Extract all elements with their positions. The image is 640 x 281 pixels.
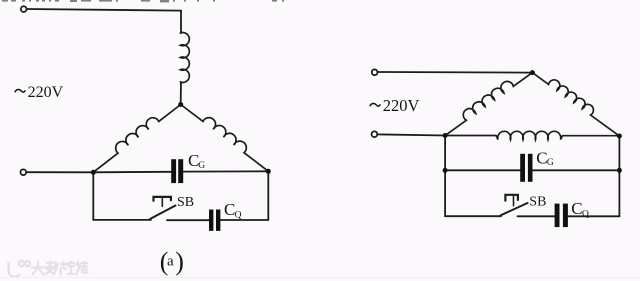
switch SB actuator stem [513, 195, 515, 206]
svg-text:Q: Q [582, 210, 589, 220]
winding right diagonal (apex to right node) [181, 98, 274, 171]
wire down to coil [180, 11, 182, 33]
bottom wire right segment [568, 215, 619, 217]
coil L-main (vertical winding) [180, 33, 189, 83]
wire coil to apex [180, 82, 182, 103]
junction CG left dot [443, 168, 448, 173]
terminal L1 (top left) [21, 6, 27, 12]
wire terminal to left node [378, 134, 445, 135]
right vertical wire [618, 136, 620, 216]
winding right diagonal (apex to right node) [532, 66, 624, 136]
svg-text:): ) [175, 247, 184, 276]
bottom wire left segment to switch hinge [93, 219, 151, 221]
terminal R1 (top left) [372, 69, 378, 75]
winding left diagonal (apex to left node) [88, 98, 180, 172]
switch SB actuator stem [161, 197, 163, 206]
wire CG right plate to right node [183, 170, 268, 172]
label ~220V right : tilde [370, 103, 381, 106]
wire left node to CG left plate [93, 171, 171, 174]
left vertical wire [92, 172, 94, 220]
terminal R2 (lower left) [372, 131, 378, 137]
left vertical wire [444, 136, 446, 217]
switch SB actuator bar [505, 195, 518, 201]
bottom wire right segment [220, 219, 268, 221]
switch SB actuator bar [154, 197, 171, 201]
junction apex dot [178, 102, 183, 107]
bottom wire middle segment [167, 219, 209, 221]
svg-text:a: a [167, 254, 174, 270]
switch SB blade [150, 206, 175, 219]
capacitor CQ plates [209, 210, 213, 231]
main winding horizontal coil [445, 131, 619, 139]
svg-text:C: C [536, 148, 547, 167]
CG row left wire [445, 169, 520, 171]
node right dot [266, 169, 271, 174]
junction apex dot right [530, 70, 535, 75]
watermark text 大数跨境 [32, 262, 88, 275]
wire terminal to left node [27, 171, 94, 173]
switch SB blade [501, 203, 528, 215]
svg-text:SB: SB [177, 195, 194, 210]
wire top horizontal [27, 9, 181, 11]
svg-text:G: G [547, 158, 554, 168]
right vertical wire [267, 171, 269, 220]
terminal L2 (lower left) [20, 169, 26, 175]
label ~220V left : tilde [15, 89, 25, 92]
svg-text:Q: Q [235, 210, 242, 220]
node left dot [91, 170, 96, 175]
bottom wire middle segment [518, 215, 555, 217]
svg-text:SB: SB [529, 194, 546, 209]
node left dot right diagram [443, 133, 448, 138]
capacitor CG plates right diagram [520, 154, 525, 182]
capacitor CQ plates right diagram [555, 204, 560, 228]
node right dot right diagram [617, 134, 622, 139]
junction CG right dot [617, 168, 622, 173]
faint bottom rule [0, 277, 640, 278]
winding left diagonal (apex to left node) [440, 65, 532, 135]
cut-off text fragments along top edge [2, 0, 284, 2]
svg-text:220V: 220V [383, 96, 420, 115]
capacitor CG plates [171, 159, 176, 183]
wire top horizontal to apex [378, 71, 531, 74]
CG row right wire [533, 169, 620, 171]
svg-text:C: C [571, 199, 582, 218]
bottom wire left segment to hinge [445, 215, 501, 217]
svg-text:220V: 220V [28, 84, 64, 101]
svg-text:G: G [198, 161, 205, 171]
watermark logo [9, 261, 31, 277]
